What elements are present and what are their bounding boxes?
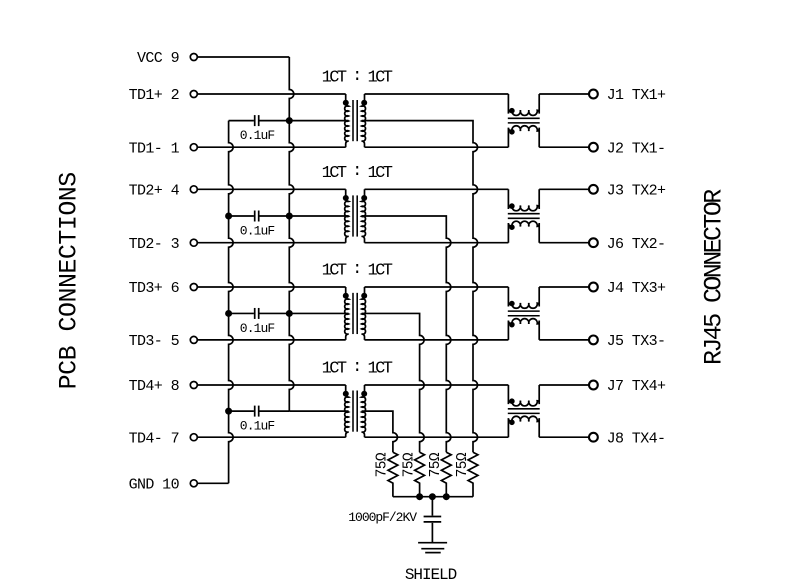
wire primary center tap T4 bbox=[289, 410, 348, 412]
terminal and pin label J5 TX3- bbox=[589, 333, 665, 350]
svg-text:SHIELD: SHIELD bbox=[405, 566, 457, 584]
junction on ground bus bbox=[226, 408, 232, 414]
value label R1 75 ohm bbox=[375, 452, 391, 477]
junction on ground bus bbox=[226, 310, 232, 316]
capacitor C5 1000pF/2KV bbox=[424, 517, 442, 522]
svg-text:TD4- 7: TD4- 7 bbox=[129, 430, 179, 447]
pin label and terminal TD3+ 6 bbox=[129, 280, 198, 297]
transformer T1 1CT:1CT bbox=[343, 94, 366, 147]
resistor R1 75 ohm bbox=[388, 452, 398, 497]
junction on VCC bus bbox=[286, 118, 292, 124]
svg-text:0.1uF: 0.1uF bbox=[240, 224, 275, 239]
value label R4 75 ohm bbox=[455, 452, 471, 477]
pin label and terminal TD3- 5 bbox=[129, 333, 198, 350]
terminal and pin label J4 TX3+ bbox=[589, 280, 666, 297]
wire T1 secondary top to choke bbox=[365, 93, 509, 95]
svg-text:75Ω: 75Ω bbox=[455, 452, 471, 477]
wire T1 secondary center tap to resistor bbox=[362, 121, 478, 453]
ratio label 1CT:1CT for T3 bbox=[322, 260, 393, 281]
title RJ45 CONNECTOR bbox=[699, 189, 728, 365]
pin label and terminal TD4+ 8 bbox=[129, 378, 198, 395]
svg-text:VCC 9: VCC 9 bbox=[137, 50, 179, 67]
wire primary center tap T2 bbox=[289, 215, 348, 217]
ratio label 1CT:1CT for T1 bbox=[322, 67, 393, 88]
svg-text:1CT : 1CT: 1CT : 1CT bbox=[322, 67, 393, 88]
wire T2 secondary top to choke bbox=[365, 188, 509, 190]
resistor R3 75 ohm bbox=[441, 452, 451, 497]
svg-text:J3 TX2+: J3 TX2+ bbox=[607, 183, 666, 200]
pin label and terminal TD2+ 4 bbox=[129, 183, 198, 200]
resistor R2 75 ohm bbox=[415, 452, 425, 497]
svg-text:TD1- 1: TD1- 1 bbox=[129, 140, 180, 157]
svg-text:J2 TX1-: J2 TX1- bbox=[607, 140, 666, 157]
wire TD4- pin to transformer bbox=[198, 436, 346, 438]
value label R3 75 ohm bbox=[428, 452, 444, 477]
wire ground bus (vertical) bbox=[229, 121, 234, 484]
wire termination bus bbox=[393, 496, 473, 498]
value label C5 1000pF/2KV bbox=[348, 510, 417, 525]
svg-text:J8 TX4-: J8 TX4- bbox=[607, 430, 666, 447]
svg-text:RJ45 CONNECTOR: RJ45 CONNECTOR bbox=[699, 189, 728, 365]
pin label and terminal TD1- 1 bbox=[129, 140, 198, 157]
junction on VCC bus bbox=[286, 310, 292, 316]
pin label and terminal VCC 9 bbox=[137, 50, 197, 67]
value label C3 bbox=[240, 321, 275, 336]
common-mode choke L4 bbox=[508, 385, 540, 437]
wire primary center tap T1 bbox=[289, 120, 348, 122]
wire T3 secondary center tap to resistor bbox=[362, 313, 425, 452]
wire choke L3 to J pin (bottom) bbox=[539, 339, 589, 341]
wire primary center tap T3 bbox=[289, 312, 348, 314]
svg-text:J4 TX3+: J4 TX3+ bbox=[607, 280, 666, 297]
svg-text:0.1uF: 0.1uF bbox=[240, 321, 275, 336]
svg-text:1CT : 1CT: 1CT : 1CT bbox=[322, 260, 393, 281]
transformer T4 1CT:1CT bbox=[343, 385, 366, 437]
wire T4 secondary top to choke bbox=[365, 384, 509, 386]
wire TD4+ pin to transformer bbox=[198, 384, 346, 386]
wire choke L2 to J pin (top) bbox=[539, 188, 589, 190]
wire choke L2 to J pin (bottom) bbox=[539, 242, 589, 244]
terminal and pin label J6 TX2- bbox=[589, 236, 665, 253]
pin label and terminal TD1+ 2 bbox=[129, 87, 198, 104]
net label SHIELD bbox=[405, 566, 457, 584]
resistor R4 75 ohm bbox=[468, 452, 478, 497]
wire termination bus to shield capacitor bbox=[431, 497, 433, 516]
value label C1 bbox=[240, 128, 275, 143]
svg-text:GND 10: GND 10 bbox=[129, 477, 180, 494]
svg-text:TD4+ 8: TD4+ 8 bbox=[129, 378, 180, 395]
wire T1 secondary bottom to choke bbox=[365, 146, 509, 148]
svg-text:75Ω: 75Ω bbox=[428, 452, 444, 477]
ground SHIELD symbol bbox=[418, 543, 447, 553]
terminal and pin label J7 TX4+ bbox=[589, 378, 666, 395]
value label C2 bbox=[240, 224, 275, 239]
svg-text:TD2+ 4: TD2+ 4 bbox=[129, 183, 180, 200]
terminal and pin label J1 TX1+ bbox=[589, 87, 666, 104]
value label C4 bbox=[240, 419, 275, 434]
common-mode choke L3 bbox=[508, 287, 540, 340]
svg-text:TD3- 5: TD3- 5 bbox=[129, 333, 180, 350]
svg-text:TD3+ 6: TD3+ 6 bbox=[129, 280, 180, 297]
wire TD2- pin to transformer bbox=[198, 242, 346, 244]
wire T2 secondary center tap to resistor bbox=[362, 216, 451, 452]
wire TD3+ pin to transformer bbox=[198, 286, 346, 288]
svg-text:TD1+ 2: TD1+ 2 bbox=[129, 87, 179, 104]
capacitor C3 0.1uF bbox=[229, 308, 290, 319]
wire GND pin to ground bus bbox=[198, 482, 229, 484]
wire T4 secondary bottom to choke bbox=[365, 436, 509, 438]
svg-text:0.1uF: 0.1uF bbox=[240, 419, 275, 434]
transformer T3 1CT:1CT bbox=[343, 287, 366, 340]
svg-text:J5 TX3-: J5 TX3- bbox=[607, 333, 666, 350]
pin label and terminal TD2- 3 bbox=[129, 236, 198, 253]
wire TD1- pin to transformer bbox=[198, 146, 346, 148]
svg-text:J7 TX4+: J7 TX4+ bbox=[607, 378, 666, 395]
wire T2 secondary bottom to choke bbox=[365, 242, 509, 244]
wire TD2+ pin to transformer bbox=[198, 188, 346, 190]
wire TD1+ pin to transformer bbox=[198, 93, 346, 95]
terminal and pin label J3 TX2+ bbox=[589, 183, 666, 200]
svg-text:PCB CONNECTIONS: PCB CONNECTIONS bbox=[54, 172, 83, 389]
capacitor C4 0.1uF bbox=[229, 406, 290, 417]
wire shield capacitor to ground bbox=[431, 523, 433, 543]
capacitor C2 0.1uF bbox=[229, 211, 290, 222]
wire T3 secondary bottom to choke bbox=[365, 339, 509, 341]
common-mode choke L2 bbox=[508, 189, 540, 242]
junction R2 on termination bus bbox=[417, 494, 423, 500]
wire TD3- pin to transformer bbox=[198, 339, 346, 341]
wire VCC center-tap bus (vertical) bbox=[289, 57, 294, 411]
pin label and terminal TD4- 7 bbox=[129, 430, 198, 447]
capacitor C1 0.1uF bbox=[229, 115, 290, 126]
junction shield cap on termination bus bbox=[429, 494, 435, 500]
wire choke L4 to J pin (bottom) bbox=[539, 436, 589, 438]
ratio label 1CT:1CT for T4 bbox=[322, 358, 393, 379]
ratio label 1CT:1CT for T2 bbox=[322, 162, 393, 183]
pin label and terminal GND 10 bbox=[129, 477, 198, 494]
terminal and pin label J2 TX1- bbox=[589, 140, 665, 157]
transformer T2 1CT:1CT bbox=[343, 189, 366, 242]
wire T3 secondary top to choke bbox=[365, 286, 509, 288]
terminal and pin label J8 TX4- bbox=[589, 430, 665, 447]
wire VCC pin to center-tap bus bbox=[198, 56, 290, 58]
title PCB CONNECTIONS bbox=[54, 172, 83, 389]
value label R2 75 ohm bbox=[401, 452, 417, 477]
wire choke L3 to J pin (top) bbox=[539, 286, 589, 288]
wire choke L1 to J pin (top) bbox=[539, 93, 589, 95]
common-mode choke L1 bbox=[508, 94, 540, 147]
svg-text:1CT : 1CT: 1CT : 1CT bbox=[322, 358, 393, 379]
svg-text:J6 TX2-: J6 TX2- bbox=[607, 236, 666, 253]
svg-text:1000pF/2KV: 1000pF/2KV bbox=[348, 510, 417, 525]
svg-text:TD2- 3: TD2- 3 bbox=[129, 236, 180, 253]
svg-text:75Ω: 75Ω bbox=[401, 452, 417, 477]
svg-text:0.1uF: 0.1uF bbox=[240, 128, 275, 143]
wire choke L1 to J pin (bottom) bbox=[539, 146, 589, 148]
wire choke L4 to J pin (top) bbox=[539, 384, 589, 386]
wire T4 secondary center tap to resistor bbox=[362, 411, 398, 452]
svg-text:75Ω: 75Ω bbox=[375, 452, 391, 477]
junction on ground bus bbox=[226, 213, 232, 219]
svg-text:1CT : 1CT: 1CT : 1CT bbox=[322, 162, 393, 183]
junction on VCC bus bbox=[286, 213, 292, 219]
svg-text:J1 TX1+: J1 TX1+ bbox=[607, 87, 666, 104]
junction R3 on termination bus bbox=[443, 494, 449, 500]
